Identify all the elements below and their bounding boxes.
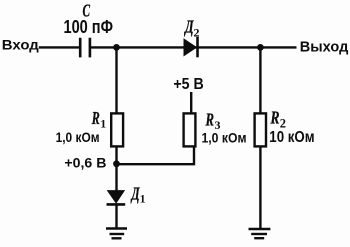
wire output node to R2 (259, 47, 261, 114)
ground symbol right (249, 228, 271, 231)
svg-text:R: R (270, 107, 280, 127)
wire input to capacitor (39, 46, 80, 48)
wire capacitor to output (91, 46, 297, 48)
svg-text:1: 1 (140, 194, 146, 206)
svg-text:Выход: Выход (300, 39, 349, 56)
svg-text:Д: Д (130, 184, 140, 204)
node junction after capacitor (113, 44, 120, 51)
wire diode D1 to ground (115, 205, 117, 228)
ground symbol left (106, 227, 127, 230)
resistor R1 body (111, 113, 123, 146)
diode D1 triangle (108, 191, 125, 203)
wire node to R1 (115, 47, 117, 163)
svg-text:+0,6 В: +0,6 В (64, 155, 106, 171)
svg-text:R: R (205, 110, 214, 130)
svg-text:1,0 кОм: 1,0 кОм (56, 129, 100, 145)
diode D2 cathode bar (196, 37, 199, 57)
wire node to diode D1 (115, 164, 117, 191)
wire R2 to ground (259, 147, 261, 229)
wire node to R3 bottom (117, 147, 195, 164)
resistor R3 body (184, 113, 196, 146)
capacitor C plates (80, 38, 90, 58)
svg-text:100 пФ: 100 пФ (64, 17, 114, 37)
svg-text:1: 1 (100, 117, 106, 131)
diode D2 triangle (184, 39, 196, 55)
svg-text:Вход: Вход (2, 37, 39, 53)
wire +5V to R3 (190, 92, 192, 114)
resistor R2 body (255, 113, 266, 146)
svg-text:R: R (91, 108, 100, 128)
svg-text:Д: Д (184, 17, 194, 37)
diode D1 cathode bar (107, 203, 126, 206)
svg-text:1,0 кОм: 1,0 кОм (202, 129, 247, 145)
node junction at +0.6V (113, 160, 120, 167)
svg-text:2: 2 (194, 26, 200, 40)
node junction at output (257, 44, 264, 51)
svg-text:10 кОм: 10 кОм (269, 129, 314, 146)
svg-text:+5 В: +5 В (173, 76, 203, 93)
